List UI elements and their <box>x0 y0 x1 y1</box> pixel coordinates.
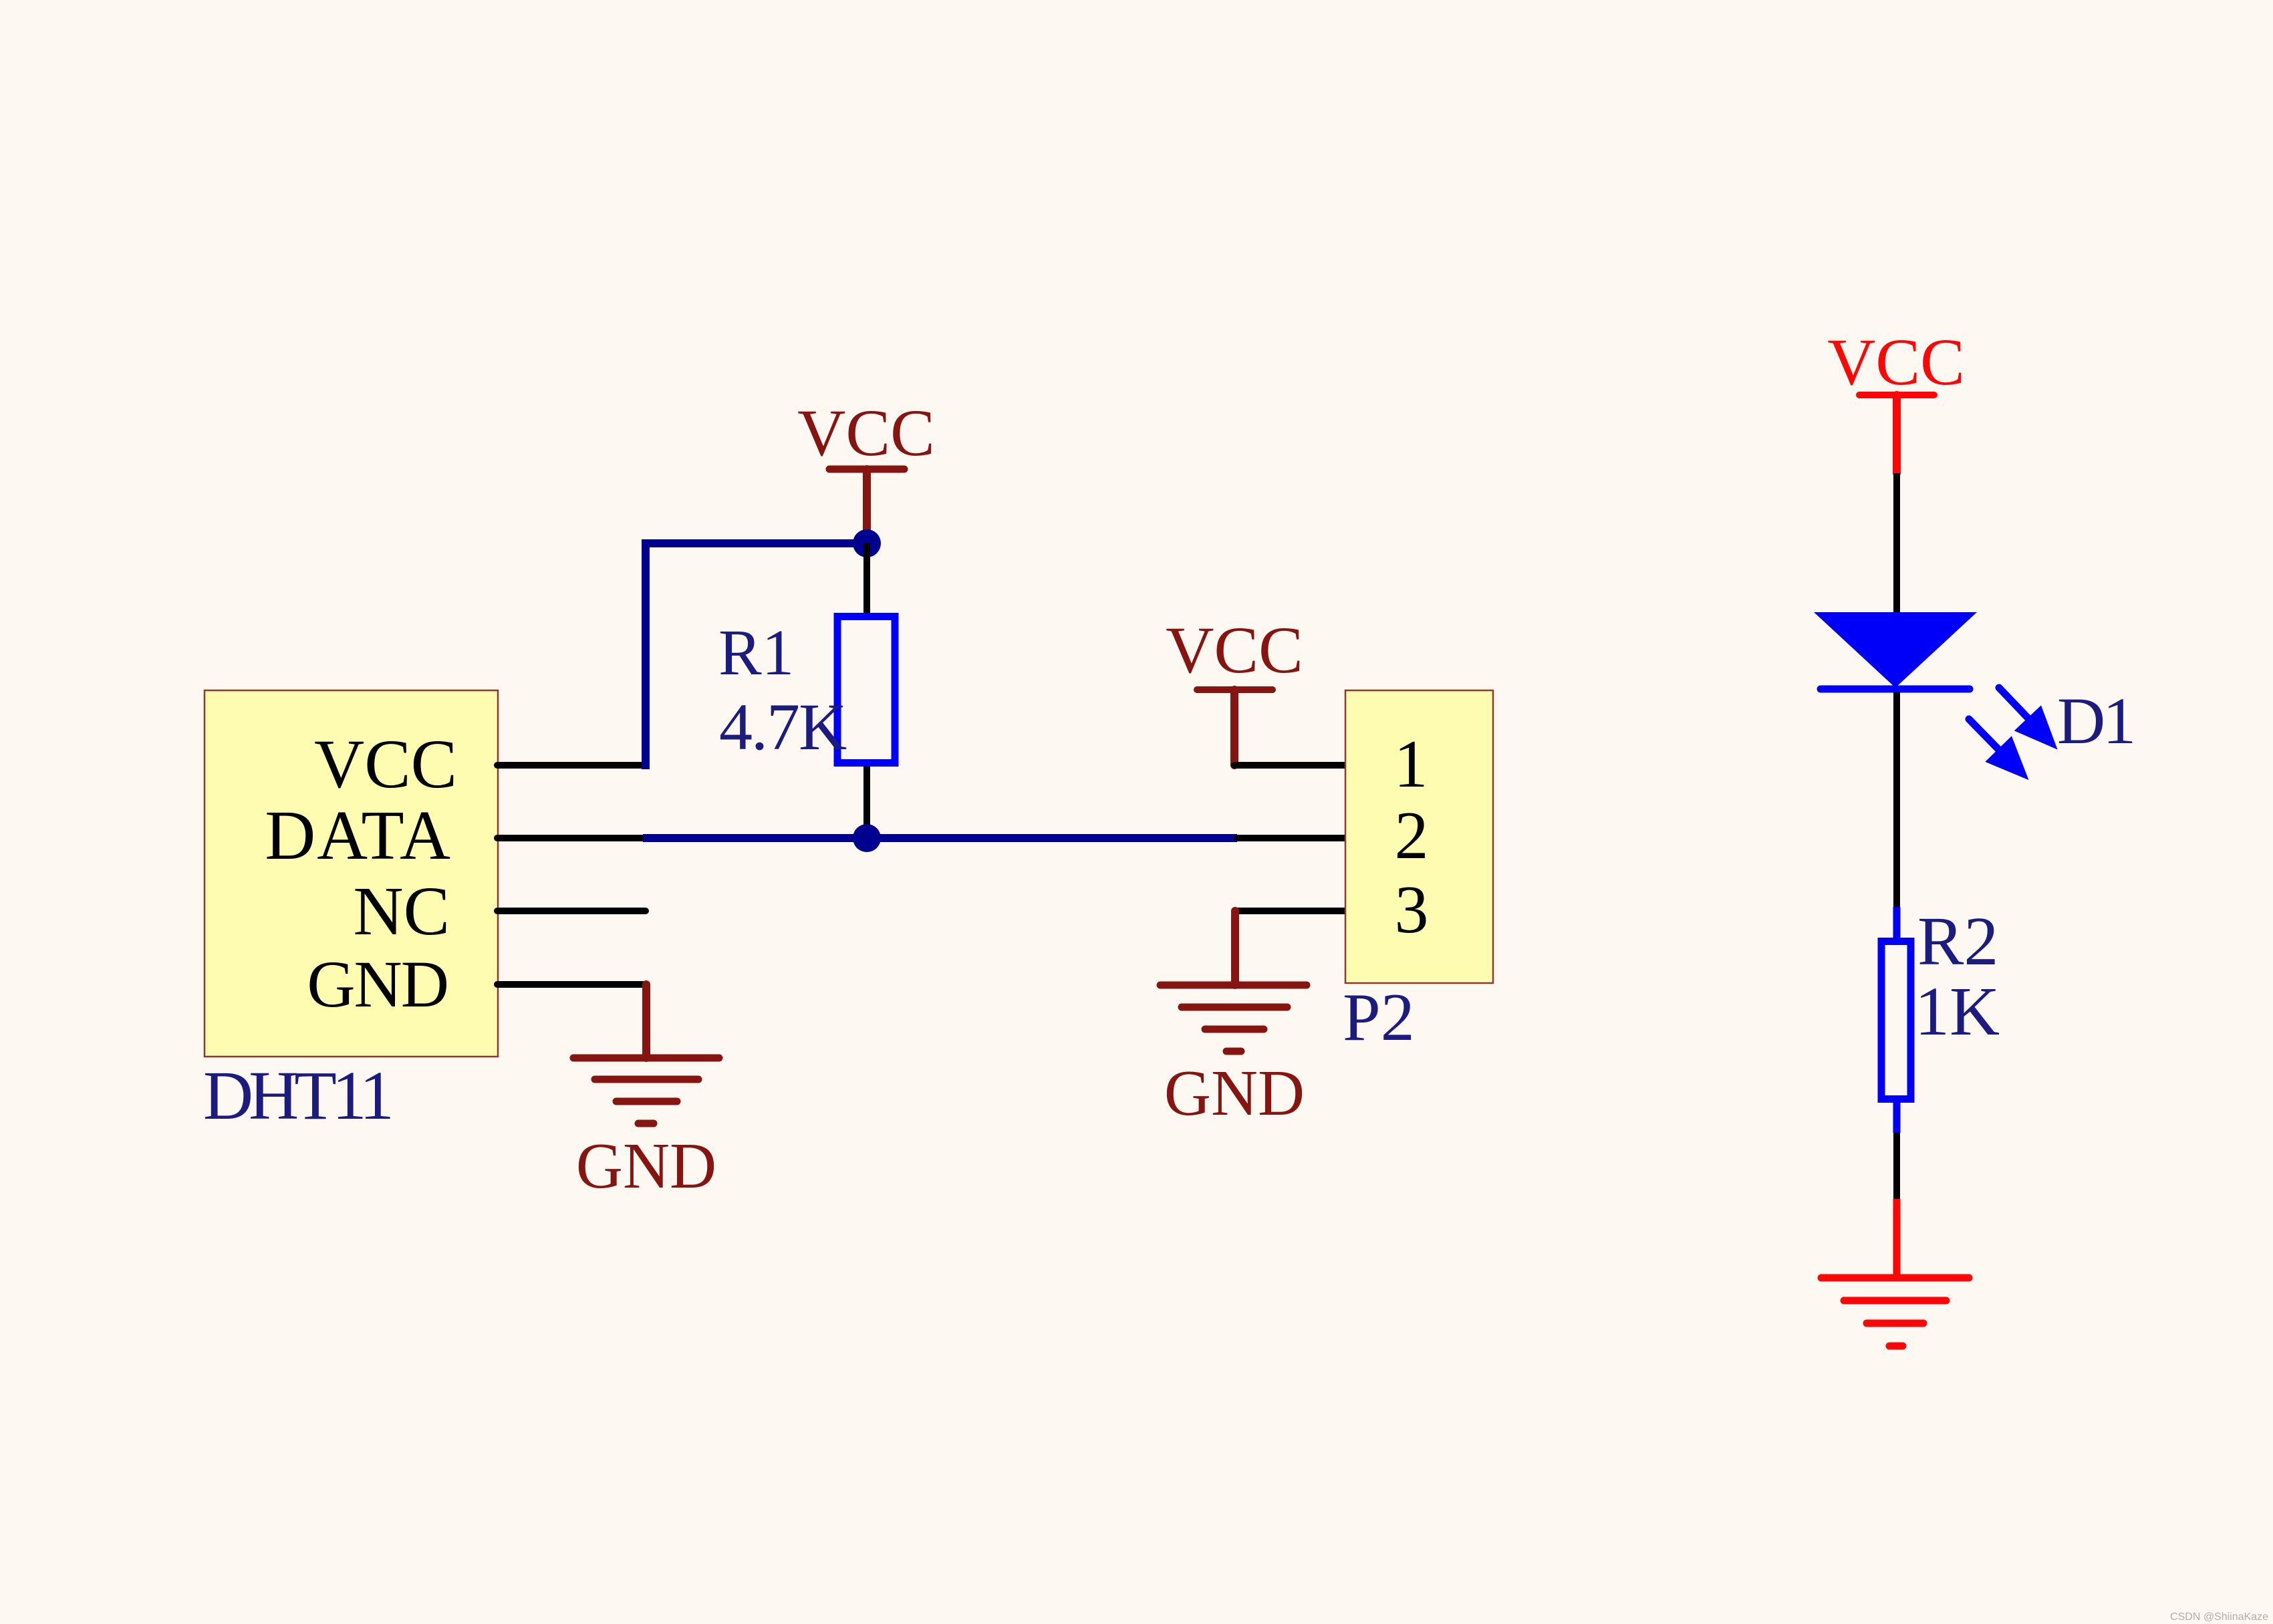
wire P2 pin 1 stub <box>1234 762 1345 769</box>
resistor R2 pin stub bottom <box>1893 1099 1901 1133</box>
component DHT11 body <box>205 690 498 1057</box>
svg-text:VCC: VCC <box>1827 325 1965 399</box>
wire DHT11 VCC pin stub <box>497 762 643 769</box>
wire DHT11 NC pin stub <box>497 908 646 914</box>
resistor R2 <box>1881 942 1911 1099</box>
power VCC symbol above R1 <box>797 396 935 543</box>
wire DHT11 DATA pin stub <box>497 835 643 841</box>
wire black from node A down to R1 <box>863 543 870 613</box>
power VCC symbol at P2 pin 1 <box>1166 613 1303 765</box>
svg-text:GND: GND <box>1164 1057 1305 1129</box>
LED D1 triangle <box>1814 612 1977 688</box>
ground symbol right circuit <box>1821 1278 1969 1346</box>
wire DHT11 GND pin stub <box>497 981 646 988</box>
wire black from LED cathode to R2 <box>1893 692 1900 907</box>
wire navy from VCC pin up and over to node A <box>646 543 867 769</box>
junction node A (VCC net) <box>853 529 881 557</box>
connector P2 body <box>1345 690 1493 983</box>
svg-text:D1: D1 <box>2057 684 2133 758</box>
wire black from VCC to LED anode <box>1893 473 1900 612</box>
junction node B (DATA net) <box>853 824 881 852</box>
wire black from R1 down to DATA junction <box>863 767 870 838</box>
svg-text:1: 1 <box>1394 726 1428 802</box>
ground symbol below DHT11 <box>573 984 719 1202</box>
LED D1 light arrow 2 <box>1969 719 2029 780</box>
LED D1 cathode bar <box>1821 686 1970 693</box>
svg-text:VCC: VCC <box>797 396 935 470</box>
LED D1 light arrow 1 <box>1999 688 2058 750</box>
svg-text:1K: 1K <box>1915 973 2000 1050</box>
wire black from R2 to ground <box>1893 1133 1900 1199</box>
svg-text:CSDN @ShiinaKaze: CSDN @ShiinaKaze <box>2170 1611 2268 1623</box>
svg-text:DHT11: DHT11 <box>203 1057 390 1134</box>
ground symbol at P2 pin 3 <box>1160 911 1307 1129</box>
resistor R1 <box>837 617 895 763</box>
svg-text:2: 2 <box>1395 798 1429 873</box>
svg-text:NC: NC <box>354 873 450 950</box>
wire DATA net navy horizontal <box>643 834 1237 842</box>
svg-text:4.7K: 4.7K <box>719 690 847 764</box>
svg-text:VCC: VCC <box>1166 613 1303 687</box>
wire red to ground <box>1893 1199 1901 1278</box>
wire P2 pin 3 stub <box>1235 908 1345 914</box>
resistor R2 pin stub top <box>1893 907 1901 941</box>
svg-text:3: 3 <box>1395 872 1429 948</box>
svg-text:VCC: VCC <box>314 726 457 803</box>
svg-text:DATA: DATA <box>265 796 452 874</box>
svg-text:GND: GND <box>576 1130 716 1202</box>
svg-text:R2: R2 <box>1917 903 1998 980</box>
svg-text:P2: P2 <box>1343 980 1415 1055</box>
svg-text:GND: GND <box>307 947 448 1021</box>
svg-text:R1: R1 <box>718 617 794 688</box>
power VCC symbol right circuit <box>1827 325 1965 473</box>
wire black DATA into P2 pin 2 <box>1237 835 1345 841</box>
